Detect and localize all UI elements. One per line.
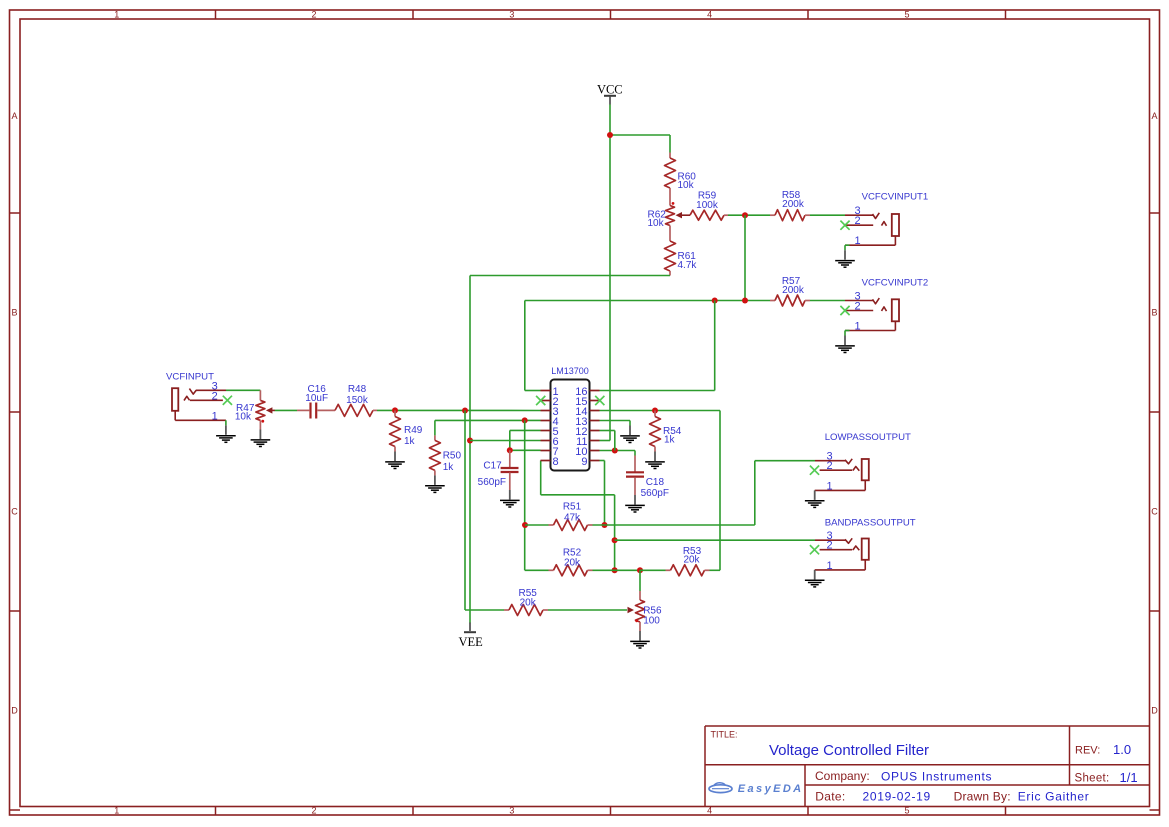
- svg-text:LM13700: LM13700: [551, 366, 589, 376]
- svg-text:B: B: [1151, 308, 1157, 318]
- svg-text:2: 2: [311, 806, 316, 816]
- svg-text:20k: 20k: [564, 558, 581, 569]
- svg-text:R49: R49: [404, 425, 423, 436]
- svg-text:4: 4: [707, 10, 712, 20]
- svg-text:VCC: VCC: [597, 83, 623, 97]
- svg-text:10uF: 10uF: [305, 393, 328, 404]
- svg-text:OPUS Instruments: OPUS Instruments: [881, 769, 992, 783]
- svg-text:3: 3: [509, 10, 514, 20]
- svg-text:R48: R48: [348, 384, 367, 395]
- svg-text:20k: 20k: [683, 555, 700, 566]
- svg-text:1/1: 1/1: [1120, 770, 1138, 785]
- svg-text:BANDPASSOUTPUT: BANDPASSOUTPUT: [825, 518, 916, 529]
- svg-text:Drawn By:: Drawn By:: [954, 790, 1011, 804]
- svg-text:560pF: 560pF: [478, 477, 506, 488]
- svg-text:10k: 10k: [678, 180, 695, 191]
- svg-text:Sheet:: Sheet:: [1075, 773, 1110, 785]
- svg-text:A: A: [1151, 111, 1157, 121]
- svg-text:1k: 1k: [404, 436, 416, 447]
- svg-text:2: 2: [855, 301, 861, 313]
- svg-text:2: 2: [212, 390, 218, 402]
- svg-text:VEE: VEE: [458, 635, 483, 649]
- svg-text:10k: 10k: [235, 412, 252, 423]
- svg-text:1: 1: [114, 806, 119, 816]
- svg-text:R50: R50: [443, 451, 462, 462]
- svg-text:Voltage Controlled Filter: Voltage Controlled Filter: [769, 742, 929, 759]
- svg-text:8: 8: [553, 456, 559, 468]
- svg-text:1: 1: [114, 10, 119, 20]
- svg-text:R51: R51: [563, 502, 582, 513]
- svg-text:VCFINPUT: VCFINPUT: [166, 372, 214, 383]
- svg-text:10k: 10k: [648, 218, 665, 229]
- svg-text:Date:: Date:: [815, 790, 845, 804]
- svg-text:D: D: [1151, 706, 1158, 716]
- svg-text:D: D: [11, 706, 18, 716]
- svg-text:100: 100: [643, 616, 660, 627]
- svg-text:2: 2: [311, 10, 316, 20]
- svg-text:VCFCVINPUT1: VCFCVINPUT1: [862, 192, 929, 203]
- svg-text:9: 9: [581, 456, 587, 468]
- svg-text:4.7k: 4.7k: [678, 260, 698, 271]
- svg-text:20k: 20k: [520, 598, 537, 609]
- svg-text:5: 5: [904, 10, 909, 20]
- svg-text:Company:: Company:: [815, 769, 870, 783]
- svg-text:C: C: [11, 507, 18, 517]
- svg-text:B: B: [11, 308, 17, 318]
- svg-text:1: 1: [827, 560, 833, 572]
- svg-text:1: 1: [855, 321, 861, 333]
- svg-text:C17: C17: [483, 460, 502, 471]
- svg-text:1: 1: [827, 480, 833, 492]
- svg-text:TITLE:: TITLE:: [711, 730, 738, 740]
- svg-text:560pF: 560pF: [641, 488, 669, 499]
- svg-text:47k: 47k: [564, 513, 581, 524]
- svg-text:150k: 150k: [346, 395, 369, 406]
- svg-text:200k: 200k: [782, 199, 805, 210]
- svg-text:VCFCVINPUT2: VCFCVINPUT2: [862, 278, 929, 289]
- svg-text:EasyEDA: EasyEDA: [738, 783, 804, 795]
- svg-text:LOWPASSOUTPUT: LOWPASSOUTPUT: [825, 432, 911, 443]
- svg-text:1k: 1k: [443, 462, 455, 473]
- svg-text:2: 2: [855, 215, 861, 227]
- svg-text:5: 5: [904, 806, 909, 816]
- svg-text:1k: 1k: [664, 435, 676, 446]
- svg-text:1: 1: [212, 410, 218, 422]
- svg-text:A: A: [11, 111, 17, 121]
- svg-text:1.0: 1.0: [1113, 742, 1131, 757]
- svg-text:2: 2: [827, 540, 833, 552]
- svg-text:200k: 200k: [782, 285, 805, 296]
- svg-text:C18: C18: [646, 477, 665, 488]
- svg-text:100k: 100k: [696, 200, 719, 211]
- svg-text:3: 3: [509, 806, 514, 816]
- svg-text:Eric Gaither: Eric Gaither: [1018, 790, 1090, 804]
- svg-text:4: 4: [707, 806, 712, 816]
- svg-text:REV:: REV:: [1075, 745, 1100, 757]
- svg-text:2019-02-19: 2019-02-19: [863, 790, 931, 804]
- svg-text:C: C: [1151, 507, 1158, 517]
- svg-text:1: 1: [855, 235, 861, 247]
- svg-text:2: 2: [827, 460, 833, 472]
